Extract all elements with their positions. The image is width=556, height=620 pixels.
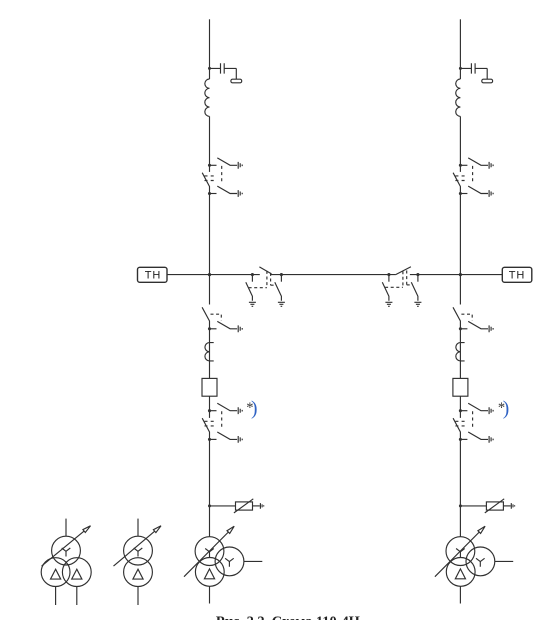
svg-text:ТН: ТН (145, 269, 161, 281)
svg-text:): ) (251, 399, 258, 420)
svg-text:Рис. 2.2. Схема 110-4Н: Рис. 2.2. Схема 110-4Н (216, 614, 360, 620)
svg-text:): ) (503, 399, 510, 420)
svg-text:ТН: ТН (509, 269, 525, 281)
